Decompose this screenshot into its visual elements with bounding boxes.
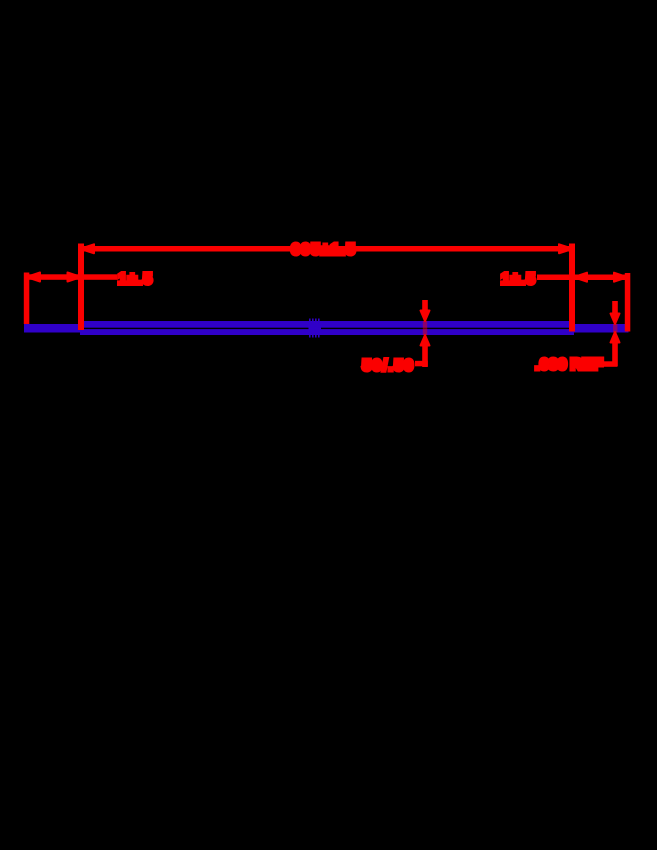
mid thickness dimension lower line — [422, 344, 428, 367]
right small dimension line — [537, 275, 628, 281]
mid thickness dimension leader — [415, 361, 428, 367]
big dimension line — [80, 246, 573, 252]
right thickness dimension lower arrowhead (up) — [611, 332, 620, 343]
big dimension left arrowhead — [80, 244, 94, 253]
part center splice block — [309, 319, 322, 338]
svg-text:1±.5: 1±.5 — [118, 271, 153, 288]
right thickness dim red pass-through on bar — [613, 324, 617, 333]
right thickness dimension leader — [603, 361, 618, 367]
right small dimension left arrowhead — [574, 273, 588, 282]
svg-text:.030 REF: .030 REF — [535, 357, 603, 374]
svg-text:605±1.5: 605±1.5 — [291, 242, 356, 259]
left small dimension right arrowhead — [68, 273, 82, 282]
right thickness dimension upper arrowhead (down) — [611, 314, 620, 325]
right thickness dimension lower line — [612, 341, 618, 366]
part main bar top edge — [80, 321, 574, 328]
right thickness dimension upper line — [612, 301, 618, 315]
svg-text:1±.5: 1±.5 — [501, 271, 536, 288]
part main bar bottom edge — [80, 329, 574, 335]
extension line right of big dimension — [569, 244, 575, 332]
big dimension right arrowhead — [559, 244, 573, 253]
svg-text:50/.50: 50/.50 — [362, 358, 414, 375]
extension line far right — [625, 273, 631, 332]
left small dimension left arrowhead — [27, 273, 41, 282]
extension line far left — [24, 273, 30, 325]
mid thickness dimension lower arrowhead (up) — [421, 335, 430, 346]
part left end tab — [24, 324, 81, 333]
right small dimension right arrowhead — [614, 273, 628, 282]
mid thickness dimension upper arrowhead (down) — [421, 311, 430, 322]
part right end tab — [573, 324, 629, 333]
mid thickness dimension upper line — [422, 300, 428, 312]
mid thickness dim red pass-through on bar — [423, 321, 427, 335]
left small dimension line — [25, 274, 117, 280]
extension line left of big dimension — [78, 244, 84, 331]
